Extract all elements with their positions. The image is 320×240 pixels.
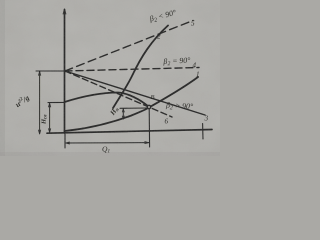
x-axis	[47, 130, 212, 134]
dimension Hsv arrow	[49, 104, 51, 133]
wire: dashed line 5 (beta2 &lt; 90deg)	[65, 21, 193, 72]
y-axis arrowhead	[63, 9, 66, 14]
curve 2 (steep rising characteristic)	[113, 26, 168, 109]
film grain overlay	[0, 0, 225, 161]
wire: vertical extension below B	[148, 109, 150, 148]
paper background	[0, 0, 220, 156]
dimension u2^2/g tall arrow	[39, 72, 41, 134]
curve: actual characteristic with maximum (to B)	[65, 93, 149, 107]
curve 1 (network parabola through B)	[65, 77, 199, 131]
dimension Q1 arrows	[66, 142, 149, 144]
wire: extension below origin	[64, 134, 66, 148]
wire: horizontal line into B	[120, 107, 147, 109]
wire: solid line 3 (beta2 &gt; 90deg)	[65, 71, 205, 115]
wire: horizontal line at Hsv level	[48, 101, 65, 103]
wire: dashed line 6 through point B	[65, 71, 172, 117]
dimension Hp arrow	[122, 109, 124, 119]
wire: horizontal line at u2^2/g level	[36, 70, 65, 72]
wire: dashed line 4 (beta2 = 90deg)	[65, 68, 199, 72]
node B operating point	[147, 105, 150, 108]
tick at end of x-axis	[202, 124, 204, 140]
y-axis	[64, 10, 66, 134]
node P (u2^2/g point on axis)	[64, 70, 67, 73]
